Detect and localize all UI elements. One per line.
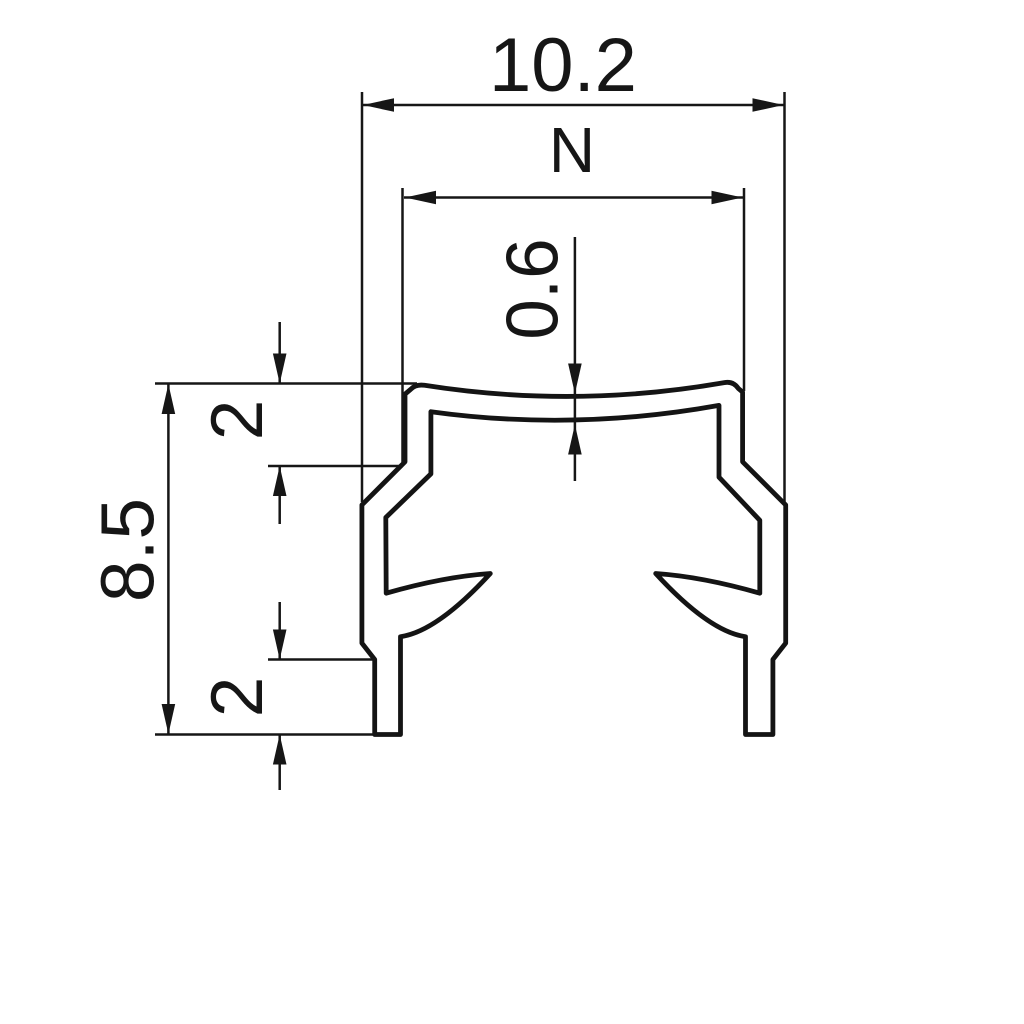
svg-text:8.5: 8.5 (86, 498, 170, 602)
extension line left of dimension N (401, 188, 404, 462)
dimension line N (404, 196, 744, 199)
arrowhead 10.2 right (753, 98, 784, 112)
arrowhead upper 2 bottom (273, 466, 287, 496)
dimension line 10.2 (362, 104, 785, 107)
arrowhead upper 2 top (273, 354, 287, 384)
svg-text:0.6: 0.6 (493, 238, 574, 339)
dimension line segment below lower 2 (278, 735, 281, 791)
extension line for upper dimension 2 (268, 465, 403, 468)
arrowhead N right (712, 191, 743, 205)
dimension line segment above upper 2 (278, 322, 281, 384)
dimension line segment below upper 2 (278, 466, 281, 524)
extension line right of dimension 10.2 (783, 92, 786, 504)
arrowhead lower 2 bottom (273, 735, 287, 765)
arrowhead N left (405, 191, 436, 205)
arrowhead lower 2 top (273, 630, 287, 660)
arrowhead 0.6 down (568, 364, 582, 394)
arrowhead 10.2 left (363, 98, 394, 112)
profile outline (extrusion cross-section) (362, 382, 786, 734)
extension line for lower dimension 2 (268, 658, 376, 661)
extension line right of dimension N (743, 188, 746, 391)
arrowhead 0.6 up (568, 425, 582, 455)
svg-text:2: 2 (197, 677, 278, 718)
dimension line segment above lower 2 (278, 602, 281, 660)
dimension line 8.5 (167, 384, 170, 735)
arrowhead 8.5 bottom (162, 704, 176, 734)
extension line bottom of dimension 8.5 (155, 733, 396, 736)
arrowhead 8.5 top (162, 384, 176, 414)
svg-text:N: N (549, 114, 595, 186)
extension line top of dimension 8.5 (155, 382, 417, 385)
leader line of dimension 0.6 (574, 237, 577, 481)
svg-text:2: 2 (197, 400, 278, 441)
svg-text:10.2: 10.2 (489, 23, 637, 108)
extension line left of dimension 10.2 (361, 92, 364, 502)
